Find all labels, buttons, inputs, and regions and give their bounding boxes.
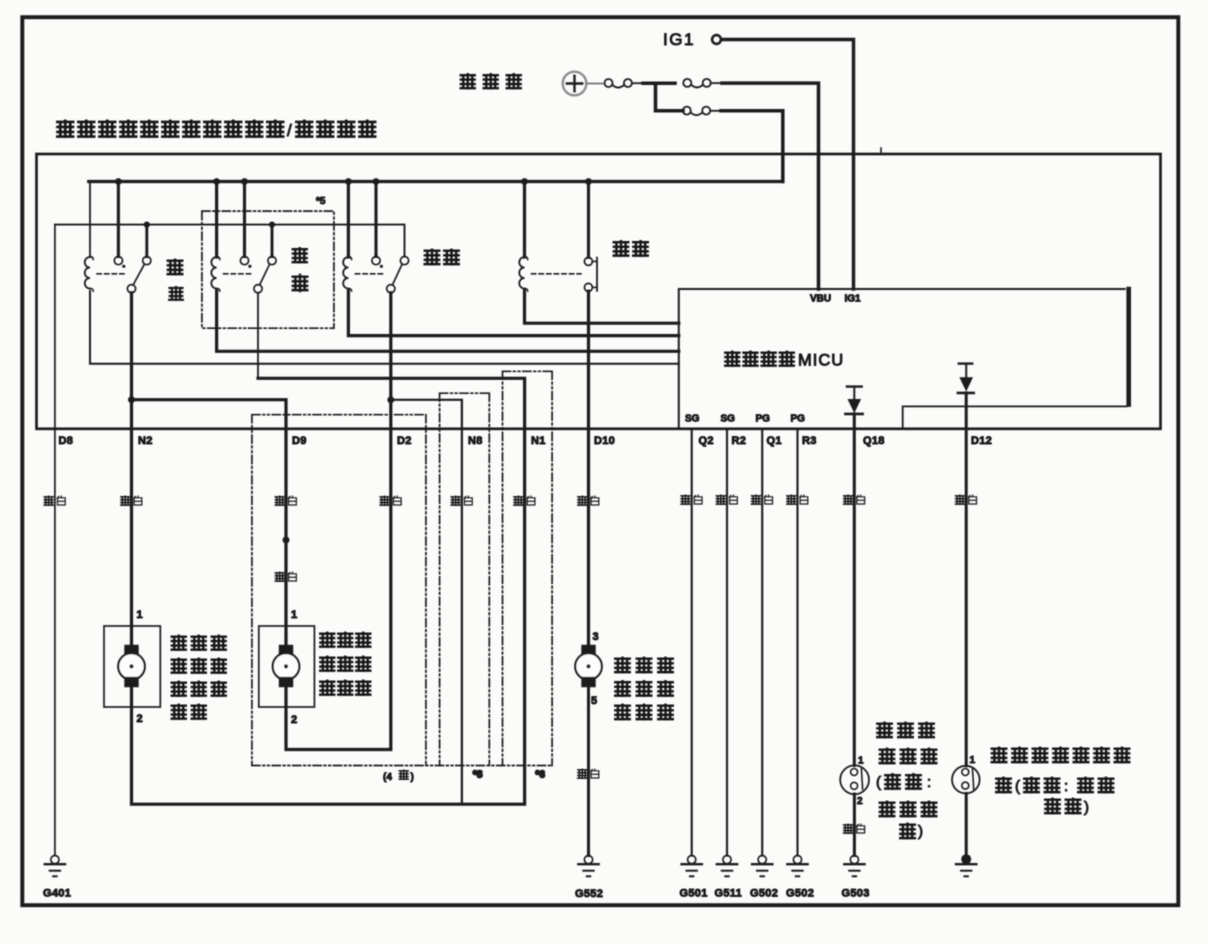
svg-text:G552: G552 (575, 888, 603, 900)
wire N8 branch (391, 400, 462, 804)
label: relay K2 unlock (CJK vertical) (292, 247, 308, 291)
label: wire color on Q18 lower (843, 824, 865, 834)
svg-text:PG: PG (756, 414, 771, 425)
label: fuse/relay box title (57, 120, 376, 140)
svg-text:2: 2 (857, 796, 863, 807)
svg-text:MICU: MICU (798, 352, 844, 370)
svg-text:D12: D12 (971, 435, 992, 447)
svg-text:(: ( (876, 774, 881, 791)
wire Q2 to ground (691, 429, 693, 856)
label: wire color on D9 lower (275, 572, 297, 582)
ground G501 (682, 856, 702, 877)
wire door switch to ground (965, 794, 968, 856)
svg-text:VBU: VBU (810, 294, 831, 305)
svg-text::: : (927, 774, 931, 791)
MICU pin SG (2) (721, 414, 736, 425)
label G501 (680, 888, 708, 900)
label: wire color on Q18 (843, 495, 865, 505)
ground G511 (717, 856, 737, 877)
pin 3 of M3 (593, 631, 599, 643)
MICU pin PG (756, 414, 771, 425)
dashed option box (4-door) (252, 415, 552, 766)
junction dot on D9 wire (283, 537, 290, 544)
fuse/relay box outline (37, 148, 1161, 429)
svg-text:SG: SG (685, 414, 700, 425)
switch S1 ignition key switch (840, 765, 869, 794)
junction dot N2/D9 branch (128, 396, 135, 403)
actuator M2 left rear door lock (box) (259, 626, 315, 707)
label: wire color on N8 (451, 496, 473, 506)
svg-text:2: 2 (137, 713, 143, 725)
node D9 connector label (292, 435, 307, 447)
label: wire color on D8 (44, 496, 66, 506)
node Q2 connector label (699, 435, 714, 447)
node Q1 connector label (767, 435, 782, 447)
svg-text::: : (1064, 778, 1068, 795)
svg-text:G401: G401 (43, 888, 71, 900)
svg-text:D2: D2 (397, 435, 412, 447)
actuator M1 motor (118, 645, 145, 687)
label: relay K4 unlock (CJK) (613, 240, 648, 256)
node R2 connector label (732, 435, 747, 447)
wire F3 to relay bus (721, 111, 783, 182)
svg-text:5: 5 (591, 695, 597, 707)
svg-text:/: / (287, 121, 292, 140)
svg-text:): ) (918, 823, 923, 840)
label: driver side door lock actuator (CJK) (171, 635, 227, 720)
pin 1 of S1 (858, 756, 864, 767)
pin 1 of M2 (291, 609, 297, 621)
wire D10: relay K4 to trunk actuator (587, 291, 590, 645)
label: wire color on N2 (120, 496, 142, 506)
wire relay K3 coil to MICU (348, 291, 678, 336)
label: driver door switch (closed: door open) (CJK) (991, 747, 1130, 816)
junction dots on bus B+ (115, 178, 592, 185)
dashed option box around relay K2, note *5 (202, 196, 334, 328)
wire bus B+ (top) (89, 180, 783, 183)
junction dots on bus 2 (144, 222, 275, 228)
pin 2 of M1 (137, 713, 143, 725)
svg-text:1: 1 (137, 609, 143, 621)
node IG1 terminal (663, 30, 721, 49)
label: wire color on Q2 (681, 495, 703, 505)
battery B+ (563, 72, 603, 96)
label: wire color on R2 (716, 495, 738, 505)
svg-text:D9: D9 (292, 435, 307, 447)
label: ignition key switch (closed: key inserted) (CJK) (876, 722, 937, 840)
svg-text:G502: G502 (786, 888, 814, 900)
node R3 connector label (802, 435, 817, 447)
label G502 (2) (786, 888, 814, 900)
svg-text:3: 3 (593, 631, 599, 643)
ground G502 (752, 856, 772, 877)
label: left rear door lock actuator (CJK) (319, 632, 371, 696)
pin 5 of M3 (591, 695, 597, 707)
wire D8: bus2 to ground G401 (54, 225, 56, 856)
dashed option box *6 (N1 wire) (503, 371, 553, 780)
wire trunk actuator to ground G552 (587, 687, 590, 856)
relay K2 (unlock relay) contacts (224, 182, 277, 293)
node D12 connector label (971, 435, 992, 447)
svg-text:G501: G501 (680, 888, 708, 900)
label: wire color on D9 (275, 496, 297, 506)
relay K1 (lock relay) coil (85, 182, 93, 292)
label: wire color on N1 (513, 496, 535, 506)
node D2 connector label (397, 435, 412, 447)
relay K4 (unlock relay) coil (519, 182, 527, 292)
pin 2 of M2 (291, 714, 297, 726)
wire D12: MICU to door switch (965, 393, 968, 766)
wire N1: relay K2 common to actuators return (132, 293, 525, 804)
svg-text:G503: G503 (842, 888, 870, 900)
dashed option box *8 (N8 wire) (440, 393, 490, 780)
ground at door switch S2 (direct) (956, 854, 976, 876)
label: battery (CJK) (460, 73, 522, 89)
label: trunk lid release actuator (CJK) (615, 657, 674, 720)
label: wire color on D2 (380, 496, 402, 506)
svg-text:(4: (4 (383, 772, 392, 783)
svg-text:2: 2 (291, 714, 297, 726)
MICU pin PG (2) (791, 414, 806, 425)
node N8 connector label (468, 435, 483, 447)
label G503 (842, 888, 870, 900)
relay K4 contact (532, 182, 598, 292)
MICU pin IG1 (845, 294, 862, 305)
junction dot D2/N8 branch (387, 396, 394, 403)
label G552 (575, 888, 603, 900)
wire N2: relay K1 common to door lock actuator (130, 293, 133, 644)
MICU box (driver side MICU) (679, 289, 1129, 429)
node N1 connector label (531, 435, 546, 447)
actuator M3 trunk lid release motor (575, 645, 602, 687)
fuse F1 (from battery) (605, 79, 644, 88)
svg-text:): ) (411, 772, 414, 783)
svg-text:1: 1 (291, 609, 297, 621)
wire relay K4 coil to MICU (525, 291, 679, 323)
actuator M1 driver door lock (box) (104, 626, 160, 707)
ground G552 (trunk) (578, 856, 598, 877)
svg-text:G502: G502 (750, 888, 778, 900)
svg-text:1: 1 (858, 756, 864, 767)
MICU pin SG (685, 414, 700, 425)
relay K2 (unlock relay) coil (211, 182, 219, 292)
pin 1 of S2 (970, 755, 976, 766)
wire IG1 to MICU (722, 40, 854, 290)
svg-text:R3: R3 (802, 435, 817, 447)
node N2 connector label (138, 435, 153, 447)
wire relay K1 coil to MICU (90, 291, 679, 364)
label: wire color on D10 (577, 496, 599, 506)
label: wire color on D12 (955, 495, 977, 505)
wire R3 to ground (796, 429, 798, 856)
svg-text:*6: *6 (536, 770, 546, 781)
relay K1 (lock relay) contacts (97, 182, 151, 293)
wire battery feed split (643, 83, 683, 111)
label: (4-door) (383, 770, 414, 783)
label: driver side MICU (CJK + MICU) (724, 351, 844, 370)
label G502 (750, 888, 778, 900)
svg-text:SG: SG (721, 414, 736, 425)
actuator M2 motor (273, 645, 300, 687)
ground G502 (2) (787, 856, 807, 877)
svg-text:N1: N1 (531, 435, 546, 447)
label G511 (715, 888, 743, 900)
label: relay K3 unlock (CJK) (424, 249, 459, 265)
label: wire color on R3 (786, 495, 808, 505)
label: relay K1 lock (CJK vertical) (167, 259, 183, 301)
svg-text:Q18: Q18 (863, 435, 885, 447)
wire ignition key switch to ground G503 (853, 794, 856, 856)
svg-text:D10: D10 (594, 435, 615, 447)
fuse F2 (VBU feed) (683, 79, 722, 88)
svg-text:Q1: Q1 (767, 435, 782, 447)
svg-text:D8: D8 (59, 435, 74, 447)
wire relay K2 coil to MICU (217, 291, 679, 351)
label: wire color on Q1 (751, 495, 773, 505)
svg-text:): ) (1084, 799, 1089, 816)
MICU pin VBU (810, 294, 831, 305)
svg-text:*8: *8 (473, 770, 483, 781)
node Q18 connector label (863, 435, 885, 447)
pin 2 of S1 (857, 796, 863, 807)
node D8 connector label (59, 435, 74, 447)
ground G401 (45, 856, 65, 877)
svg-text:IG1: IG1 (663, 30, 695, 49)
diode D-A inside MICU (Q18 output) (845, 387, 862, 414)
label G401 (43, 888, 71, 900)
label: wire color on D10 lower (577, 769, 599, 779)
pin 1 of M1 (137, 609, 143, 621)
svg-text:IG1: IG1 (845, 294, 862, 305)
svg-text:N2: N2 (138, 435, 153, 447)
node D10 connector label (594, 435, 615, 447)
switch S2 driver door switch (952, 766, 980, 794)
wire bus 2 (unlock feed) (55, 225, 405, 257)
wire F2 to MICU pin VBU (722, 83, 819, 289)
wire Q18: MICU to ignition key switch (853, 414, 856, 766)
svg-text:*5: *5 (316, 196, 326, 207)
svg-text:1: 1 (970, 755, 976, 766)
svg-text:PG: PG (791, 414, 806, 425)
svg-text:G511: G511 (715, 888, 743, 900)
relay K3 (unlock relay) contacts (355, 182, 408, 293)
svg-text:R2: R2 (732, 435, 747, 447)
wire R2 to ground (726, 429, 728, 856)
diode D-B inside MICU (D12 input) (958, 364, 974, 393)
wire Q1 to ground (761, 429, 763, 856)
svg-text:(: ( (1015, 778, 1020, 795)
wire D2: relay K3 common to left rear actuator return (286, 293, 391, 750)
ground G503 (844, 856, 864, 877)
wire D9 branch: to left rear actuator (132, 400, 287, 644)
svg-text:N8: N8 (468, 435, 483, 447)
fuse F3 (bus feed) (683, 107, 721, 116)
relay K3 (unlock relay) coil (343, 182, 351, 292)
svg-text:Q2: Q2 (699, 435, 714, 447)
